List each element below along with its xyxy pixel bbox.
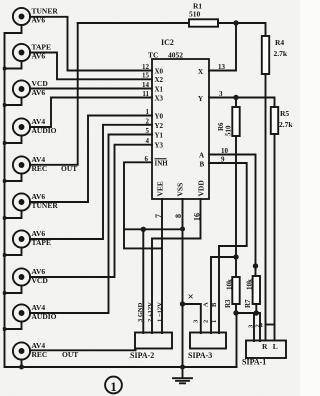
symbol circled 1 [105,377,122,394]
svg-text:AV6: AV6 [32,16,46,25]
wire: R3/R7 bottoms to SIPA-1 [236,304,260,367]
svg-text:Y: Y [198,95,203,103]
svg-text:R4: R4 [275,38,284,47]
wire: node to SIPA-3 pin2 [211,257,236,333]
jack J5 AV4/REC OUT [5,156,31,181]
jack J2 TAPE/AV6 [5,44,31,69]
svg-text:SIPA-2: SIPA-2 [130,351,154,360]
junction bus J8 [3,291,6,294]
svg-text:AV4: AV4 [32,117,46,126]
connector SIPA-1 [246,341,286,359]
svg-text:AV6: AV6 [32,88,46,97]
svg-text:X0: X0 [155,68,164,76]
wire: pin9 B to SIPA-3 pin1 [209,163,247,333]
junction bus J2 [3,67,6,70]
svg-text:SIPA-1: SIPA-1 [242,358,266,367]
junction node rail / VSS [180,227,185,232]
wire: J1 to X0 pin 12 [30,17,152,71]
svg-text:A: A [199,152,204,160]
svg-text:A: A [203,302,210,307]
svg-text:8: 8 [174,214,183,218]
connector SIPA-2 [135,333,172,349]
svg-text:12: 12 [142,63,150,71]
wire: GND drop to SIPA-2 pin3 [142,229,144,333]
svg-text:×: × [188,291,194,303]
svg-text:14: 14 [142,81,150,89]
svg-text:X1: X1 [155,86,164,94]
SIPA-2 pin labels rotated [137,302,263,329]
junction bus J7 [3,253,6,256]
svg-text:1: 1 [110,379,117,394]
svg-text:TAPE: TAPE [32,43,51,52]
svg-text:L: L [273,342,278,351]
wire: J8 to Y3 pin 4 [30,145,152,277]
svg-text:R7: R7 [244,299,252,308]
wire: pin10 A to R7 [209,155,256,277]
ground symbol [173,367,192,383]
svg-text:10k: 10k [246,279,254,290]
wire: VEE pin7 to SIPA-2 pin1 [161,199,163,333]
wire: J2 to X2 pin 15 [30,53,152,80]
svg-text:510: 510 [189,10,201,19]
svg-text:1 −12V: 1 −12V [157,302,164,322]
svg-text:5: 5 [146,127,150,135]
svg-text:Y2: Y2 [155,122,164,130]
svg-text:4052: 4052 [168,51,183,60]
wire: INH pin 6 to rail [124,162,162,248]
wire: ground bus left + bottom ground line [5,25,237,367]
wire: J10 to SIPA-2 corner [30,349,136,351]
jack J3 VCD/AV6 [5,80,31,105]
svg-text:TUNER: TUNER [32,7,59,16]
svg-text:R5: R5 [280,109,289,118]
svg-text:2 +12V: 2 +12V [147,302,154,322]
svg-text:REC: REC [32,164,48,173]
junction node rail / GND drop [141,227,146,232]
wire: J7 to Y2 pin 2 [30,125,152,239]
junction bus J3 [3,103,6,106]
jack J4 AV4/AUDIO [5,118,31,143]
wire: J6 to Y0 pin 1 [30,116,152,203]
svg-text:AV6: AV6 [32,52,46,61]
svg-text:VSS: VSS [176,183,185,197]
resistor R1 510 [189,19,218,26]
svg-text:AV6: AV6 [32,229,46,238]
svg-text:TUNER: TUNER [32,201,59,210]
jack J6 AV6/TUNER [5,193,31,218]
svg-text:Y1: Y1 [155,132,164,140]
svg-text:1: 1 [211,320,218,323]
svg-text:AV4: AV4 [32,303,46,312]
svg-text:9: 9 [221,156,225,164]
wire: J9 to Y1 pin 5 [30,135,152,314]
svg-text:X2: X2 [155,76,164,84]
junction node A line / R7 [253,263,258,268]
svg-text:B: B [200,161,205,169]
svg-text:15: 15 [142,72,150,80]
wire: VSS pin8 down, X node, SIPA-3 pin3, ground [183,199,201,367]
svg-text:R: R [262,342,268,351]
svg-text:R3: R3 [224,299,232,308]
svg-text:AUDIO: AUDIO [32,126,57,135]
svg-text:Y0: Y0 [155,113,164,121]
svg-text:13: 13 [218,63,226,71]
wire: J5 REC OUT riser to top line [30,23,78,165]
junction node Y line / R6 [233,95,238,100]
junction bus J9 [3,327,6,330]
pin numbers left [142,63,150,163]
svg-text:2: 2 [146,117,150,125]
wire: R6 down to node [235,136,237,277]
svg-text:X3: X3 [155,95,164,103]
junction node R7 bottom [254,310,259,315]
svg-text:OUT: OUT [62,350,78,359]
svg-text:4: 4 [146,137,150,145]
svg-text:Y3: Y3 [155,142,164,150]
svg-text:1: 1 [146,108,150,116]
wire: rail below IC [124,228,183,230]
svg-text:INH: INH [155,160,169,168]
jack J1 TUNER/AV6 [13,8,30,25]
IC power pin names rotated [154,180,206,221]
svg-text:X: X [198,68,203,76]
junction node R3 bottom [233,310,238,315]
svg-text:TAPE: TAPE [32,238,51,247]
svg-text:1: 1 [260,322,263,329]
svg-text:AV4: AV4 [32,341,46,350]
junction node ground line / stem [180,365,185,370]
junction bus J4 [3,141,6,144]
wire: pin1 link [266,324,275,326]
svg-text:7: 7 [154,214,163,218]
svg-text:10: 10 [221,147,229,155]
svg-text:AUDIO: AUDIO [32,312,57,321]
svg-text:11: 11 [142,90,149,98]
svg-text:6: 6 [145,155,149,163]
svg-text:2: 2 [203,320,210,323]
svg-text:OUT: OUT [61,164,77,173]
wire: top branch to R1 [78,22,189,24]
jack J10 AV4/REC OUT [13,342,30,367]
resistor R5 2.7k [271,107,278,134]
resistor R7 10k [253,276,260,304]
connector SIPA-3 [190,333,226,349]
junction node X [180,301,185,306]
svg-text:3: 3 [219,90,223,98]
svg-text:510: 510 [225,125,233,136]
jack J7 AV6/TAPE [5,230,31,255]
junction node top line / pin13 [233,20,238,25]
svg-text:2.7k: 2.7k [274,49,288,58]
svg-text:REC: REC [32,350,48,359]
svg-text:B: B [211,302,218,307]
resistor R4 2.7k [262,36,269,74]
resistor R6 510 [235,98,237,108]
svg-text:IC2: IC2 [161,38,174,47]
wire: J4 to X3 pin 11 [30,98,152,128]
wire: Y pin3 to R5 [209,98,275,108]
svg-text:AV6: AV6 [32,192,46,201]
op-amp/IC IC2 TC4052 box [152,59,209,199]
svg-text:VDD: VDD [197,180,206,197]
IC pin names [155,68,205,169]
svg-text:VCD: VCD [32,276,49,285]
wire: node to pin13 X [209,23,236,71]
junction node R6/R3/A-net [233,254,238,259]
svg-text:16: 16 [193,213,202,221]
svg-text:TC: TC [148,51,158,60]
junction node J10 shell / ground line [19,365,24,370]
wire: J3 to X1 pin 14 [30,88,152,90]
jack J8 AV6/VCD [5,268,31,293]
svg-text:3 GND: 3 GND [137,302,144,322]
wire: R1 to node and R4 [218,23,266,36]
wire: VDD pin16 to SIPA-2 pin2 [152,199,201,333]
svg-text:VEE: VEE [156,181,165,196]
svg-text:10k: 10k [226,279,234,290]
svg-text:AV4: AV4 [32,155,46,164]
junction bus J5 [3,179,6,182]
svg-text:2.7k: 2.7k [279,120,293,129]
wire: R5 down to SIPA-1 [274,134,276,341]
junction bus J6 [3,216,6,219]
jack J9 AV4/AUDIO [5,304,31,329]
svg-text:VCD: VCD [32,79,49,88]
pin numbers right [218,63,229,164]
resistor R3 10k [232,277,239,304]
svg-text:AV6: AV6 [32,267,46,276]
wire: R4 down to SIPA-1 [265,74,267,341]
svg-text:SIPA-3: SIPA-3 [188,351,212,360]
